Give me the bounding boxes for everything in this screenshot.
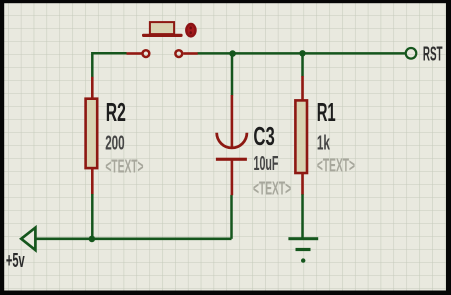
wire: R2 bottom to +5v rail: [91, 194, 94, 239]
pushbutton SW1: [127, 22, 198, 57]
svg-text:10uF: 10uF: [254, 152, 279, 174]
resistor R2: [86, 77, 98, 195]
wire: top rail corner above R2 to pushbutton left pin: [92, 53, 126, 77]
wire: R1 top: [301, 53, 304, 76]
svg-text:RST: RST: [423, 43, 443, 66]
power terminal +5v: [21, 228, 35, 251]
svg-text:1k: 1k: [317, 131, 331, 154]
wire: R1 bottom to ground: [301, 194, 304, 238]
capacitor C3: [216, 95, 247, 195]
svg-text:<TEXT>: <TEXT>: [317, 155, 355, 176]
wire: C3 top: [231, 54, 234, 96]
wire: +5v bottom rail: [35, 238, 232, 241]
junction at R1 top: [299, 50, 305, 56]
svg-text:+5v: +5v: [6, 250, 25, 272]
svg-text:<TEXT>: <TEXT>: [253, 179, 291, 200]
wire: C3 bottom to +5v rail: [230, 195, 233, 239]
svg-text:<TEXT>: <TEXT>: [105, 157, 143, 178]
svg-text:R1: R1: [317, 99, 336, 127]
svg-text:R2: R2: [106, 98, 126, 127]
wire: top rail from pushbutton right pin to RST terminal: [198, 52, 405, 55]
ground: [288, 237, 318, 263]
terminal RST: [406, 48, 417, 59]
junction at C3 top: [229, 50, 236, 57]
svg-text:C3: C3: [253, 121, 274, 151]
resistor R1: [295, 76, 307, 195]
junction at +5v rail under R2: [89, 236, 96, 243]
svg-text:200: 200: [105, 131, 124, 154]
